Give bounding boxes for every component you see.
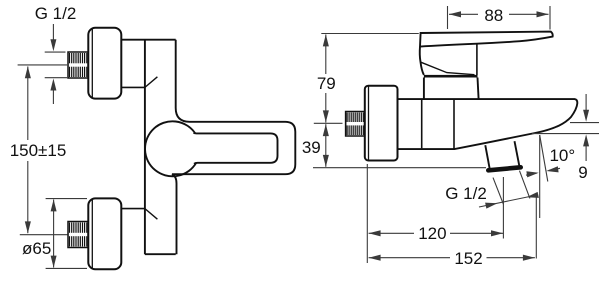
G1/2 dim line with arrows bbox=[479, 195, 537, 207]
ref line 9 bottom bbox=[532, 133, 599, 135]
svg-text:10°: 10° bbox=[549, 146, 575, 165]
flange / escutcheon bottom bbox=[88, 198, 121, 269]
ref line 9 top bbox=[570, 122, 599, 124]
svg-text:120: 120 bbox=[418, 224, 446, 243]
thread top-left (G 1/2) bbox=[68, 52, 88, 78]
G1/2 leader line A bbox=[493, 178, 503, 205]
svg-text:G 1/2: G 1/2 bbox=[35, 4, 77, 23]
dim ø65 line bbox=[53, 200, 55, 268]
10° right arrow bbox=[549, 168, 561, 170]
center ref line bottom connector bbox=[20, 234, 68, 236]
outlet rim (solid) bbox=[488, 167, 520, 170]
body left edge bbox=[144, 40, 146, 255]
dim 88 ext line right bbox=[549, 6, 551, 30]
collar left edge bbox=[423, 78, 425, 100]
body seam line 2 bbox=[453, 99, 455, 149]
flange / escutcheon top bbox=[88, 28, 121, 99]
body top edge bbox=[121, 39, 175, 41]
knob circle arc bbox=[145, 121, 196, 176]
body bottom edge bbox=[145, 253, 176, 255]
union bottom: top edge bbox=[121, 208, 145, 210]
dim 9 arrows bbox=[585, 94, 587, 110]
10° vertical ref line bbox=[539, 135, 541, 218]
thread side view (wall connection) bbox=[346, 112, 365, 137]
svg-text:ø65: ø65 bbox=[22, 239, 51, 258]
svg-text:152: 152 bbox=[454, 249, 482, 268]
dim ø65 ref line bottom bbox=[46, 267, 87, 269]
G1/2 lower arrow bbox=[52, 88, 54, 104]
ext line outlet axis for 120 bbox=[502, 177, 504, 239]
ext line for 152 bbox=[535, 196, 537, 259]
body seam line 1 bbox=[421, 99, 423, 148]
flange inner edge line bbox=[91, 28, 93, 98]
collar right edge bbox=[478, 78, 479, 100]
dim 88 ext line left bbox=[447, 6, 449, 29]
inner lever outline bbox=[194, 133, 278, 164]
ext line left (wall plane) for 120/152 bbox=[366, 164, 368, 263]
ref line 79 top bbox=[321, 33, 419, 35]
svg-text:150±15: 150±15 bbox=[10, 141, 67, 160]
dim 88 line + arrows bbox=[449, 13, 478, 15]
union bottom: break tick bbox=[145, 209, 158, 220]
10° left arrow bbox=[526, 173, 537, 175]
dim ø65 ref line top bbox=[46, 198, 87, 200]
G1/2 upper arrow bbox=[52, 24, 54, 41]
svg-text:G 1/2: G 1/2 bbox=[445, 184, 487, 203]
blade-to-cap edge bbox=[476, 44, 478, 75]
escutcheon side view bbox=[365, 86, 398, 161]
G1/2 upper ref line bbox=[45, 51, 66, 53]
body/spout outline with beak tip bbox=[398, 99, 578, 149]
ref line 39 bottom bbox=[313, 167, 486, 169]
svg-text:88: 88 bbox=[484, 6, 503, 25]
outlet tube right edge bbox=[515, 141, 520, 167]
thread bottom-left (G 1/2) bbox=[68, 222, 88, 248]
G1/2 leader line B bbox=[520, 171, 530, 199]
cap bottom diagonal bbox=[421, 62, 475, 74]
flange inner edge line bottom bbox=[91, 199, 93, 269]
center ref line top connector bbox=[18, 64, 68, 66]
escutcheon inner edge line bbox=[368, 86, 370, 160]
svg-text:39: 39 bbox=[302, 138, 321, 157]
dim 150±15 line lower part bbox=[27, 161, 29, 233]
svg-text:9: 9 bbox=[578, 163, 587, 182]
union top: break tick bbox=[145, 77, 158, 88]
lever blade side view bbox=[420, 32, 553, 47]
10° tilted line bbox=[540, 135, 548, 182]
svg-text:79: 79 bbox=[317, 74, 336, 93]
body right edge upper + fillet into paddle + paddle outline + S-curve to body lower edge bbox=[172, 40, 295, 255]
G1/2 lower ref line bbox=[45, 77, 67, 79]
cap left edge bbox=[420, 47, 424, 75]
ref line 79/39 middle bbox=[314, 122, 343, 124]
union top: bottom edge bbox=[121, 86, 145, 88]
collar top thick bar bbox=[424, 75, 478, 78]
dim 150±15 line upper part bbox=[27, 67, 29, 141]
outlet tube left edge (angled 10°) bbox=[485, 145, 489, 168]
